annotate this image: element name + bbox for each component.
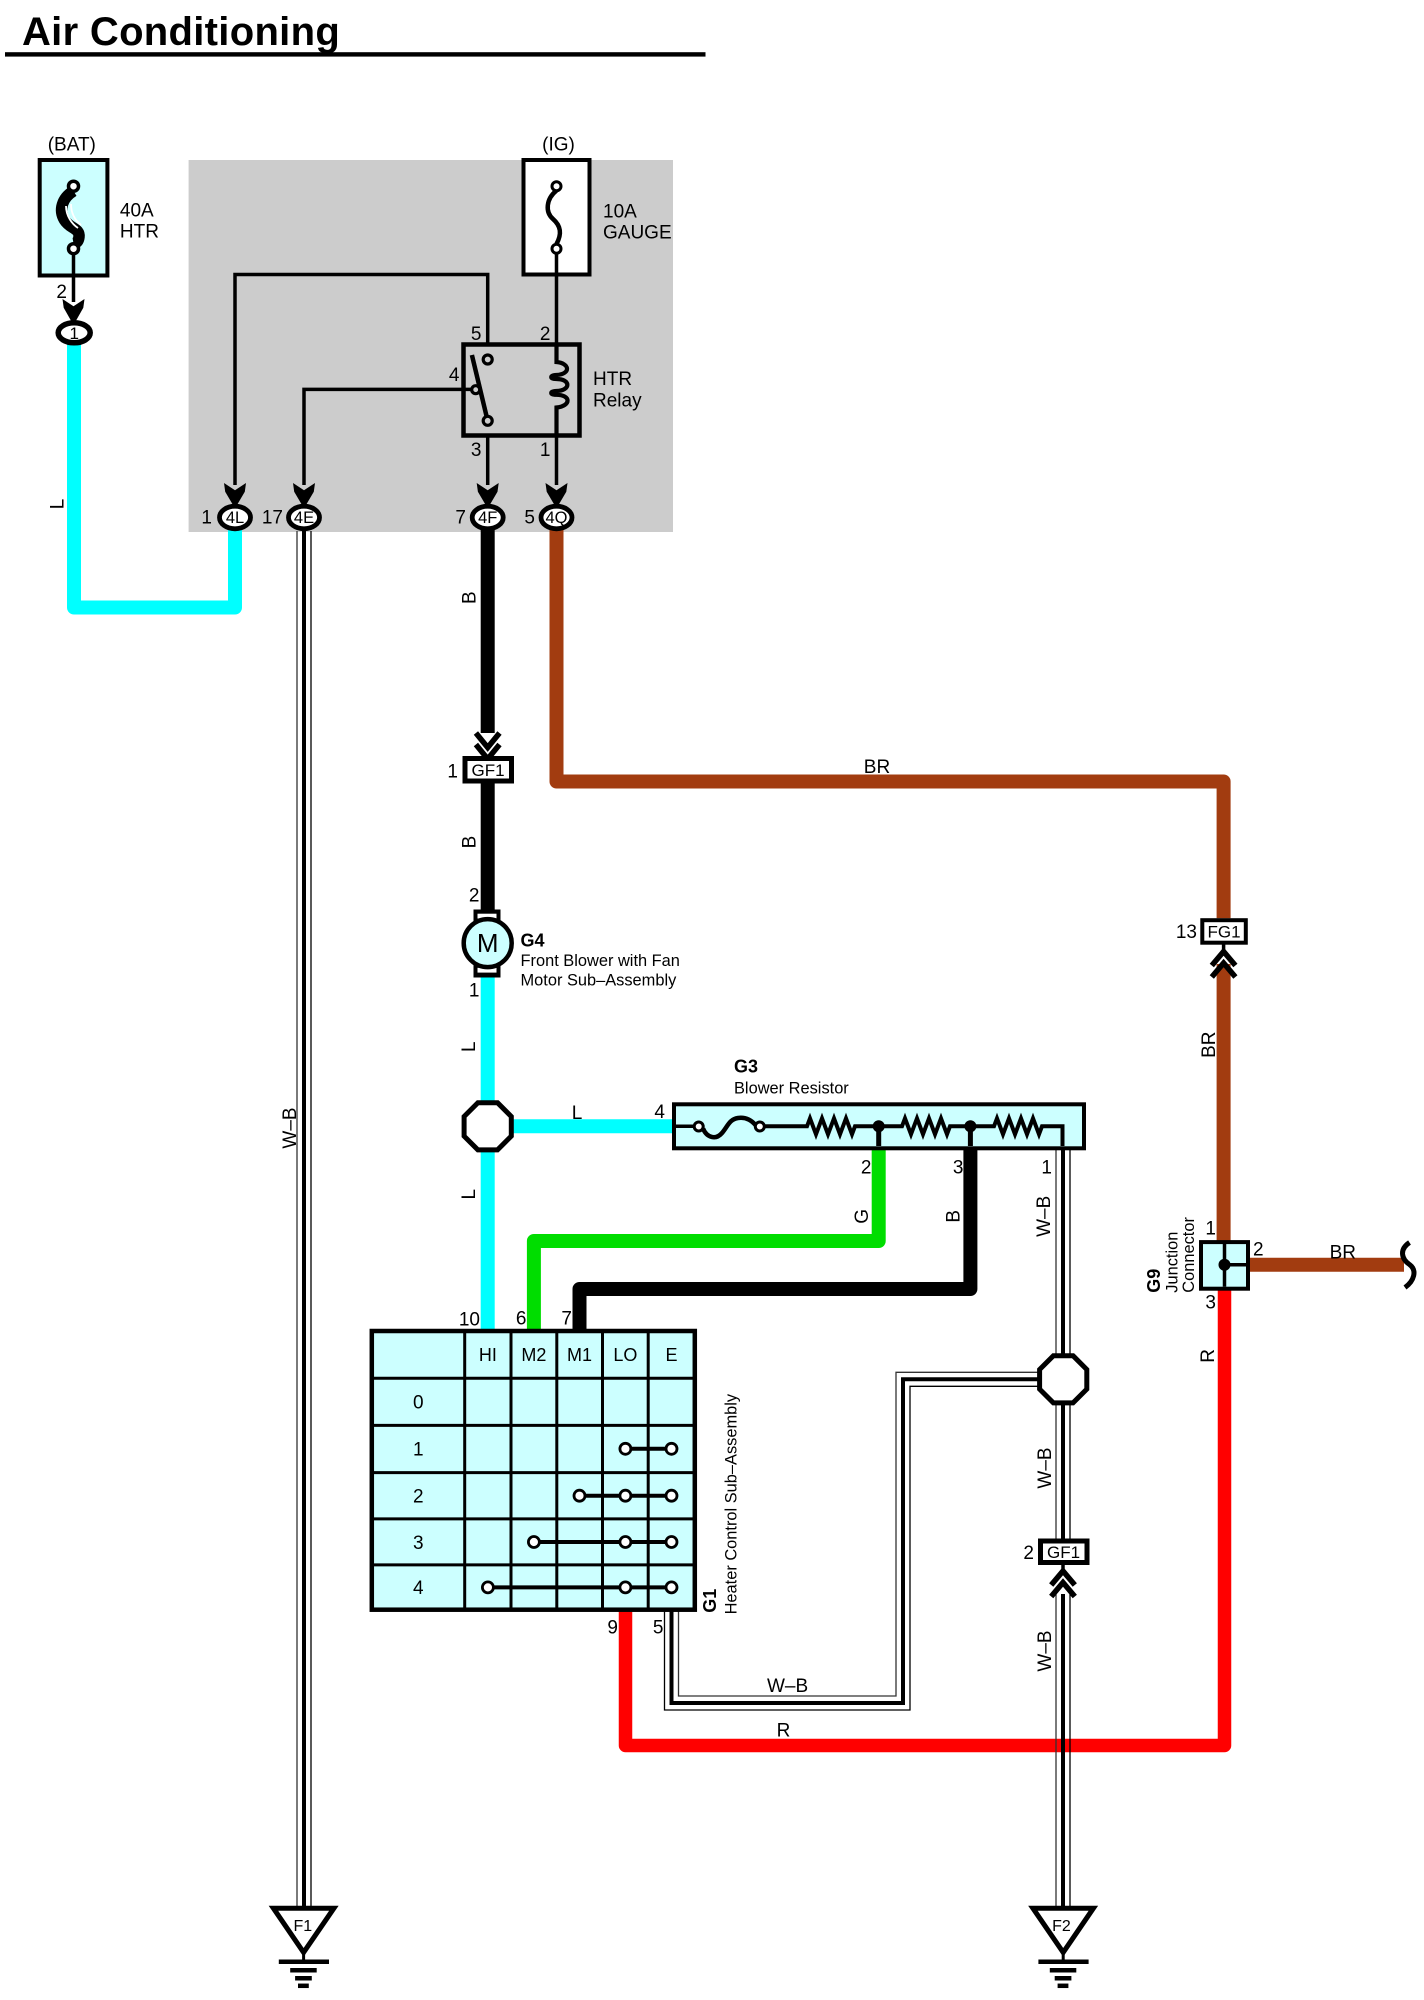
svg-text:10A: 10A (603, 202, 637, 223)
svg-text:2: 2 (1253, 1240, 1264, 1261)
svg-text:10: 10 (459, 1310, 480, 1331)
svg-text:5: 5 (524, 508, 535, 529)
svg-text:R: R (1198, 1349, 1219, 1363)
svg-text:5: 5 (653, 1618, 664, 1639)
blower motor G4 with fan (464, 910, 680, 990)
svg-text:W–B: W–B (767, 1676, 808, 1697)
double chevron arrow up below GF1 2 (1061, 1563, 1065, 1573)
svg-text:1: 1 (69, 324, 78, 343)
svg-text:M1: M1 (567, 1345, 592, 1365)
connector oval 4E with pin 17 (262, 506, 320, 529)
svg-text:1: 1 (540, 440, 551, 461)
wire W-B (triple line) blower resistor pin 1 to junction B (1056, 1149, 1070, 1356)
connector GF1 pin 2 (1023, 1541, 1087, 1564)
wire W-B (triple line) junction B to GF1 connector 2 (1056, 1403, 1070, 1540)
svg-text:HI: HI (479, 1345, 497, 1365)
heater control sub-assembly G1 switch table (372, 1331, 695, 1610)
blower resistor G3 (654, 1057, 1084, 1179)
switch contact row 2 (574, 1490, 677, 1501)
svg-text:M2: M2 (521, 1345, 546, 1365)
svg-text:1: 1 (447, 762, 458, 783)
arrow into connector 1 (63, 299, 85, 321)
svg-text:2: 2 (861, 1158, 872, 1179)
wire L (cyan) junction to blower resistor pin 4 (500, 1119, 672, 1133)
wire W-B (triple line) heater control pin 5 to junction B (665, 1372, 1041, 1710)
svg-text:(IG): (IG) (542, 135, 575, 156)
arrow into 4L (224, 483, 246, 504)
svg-text:4F: 4F (478, 509, 497, 527)
arrow into 4Q (546, 483, 568, 504)
switch contact row 1 (620, 1443, 677, 1454)
relay HTR (449, 324, 642, 461)
connector FG1 pin 13 (1176, 920, 1246, 943)
wire BR (brown) 4Q to FG1 (557, 528, 1224, 918)
svg-text:4E: 4E (294, 509, 314, 527)
svg-text:W–B: W–B (280, 1107, 301, 1148)
ground F1 (273, 1908, 334, 1986)
svg-text:B: B (460, 591, 481, 604)
connector oval 4Q with pin 5 (524, 506, 572, 529)
wire IG fuse to relay pin 2 (555, 253, 559, 343)
svg-text:HTR: HTR (593, 369, 632, 390)
svg-text:G: G (852, 1209, 873, 1224)
svg-text:L: L (48, 499, 69, 510)
connector oval 4L with pin 1 (201, 506, 250, 529)
svg-text:W–B: W–B (1035, 1630, 1056, 1671)
wire W-B (triple line) 4E to ground F1 (297, 531, 311, 1906)
wire G (green) blower resistor pin 2 to heater control pin 6 (534, 1149, 879, 1333)
svg-text:W–B: W–B (1035, 1447, 1056, 1488)
arrow into 4E (293, 483, 315, 504)
svg-text:L: L (459, 1041, 480, 1052)
ground F2 (1033, 1908, 1094, 1986)
svg-text:2: 2 (56, 282, 67, 303)
svg-text:7: 7 (561, 1309, 572, 1330)
svg-text:Air Conditioning: Air Conditioning (22, 10, 340, 54)
svg-text:G1: G1 (700, 1589, 720, 1613)
svg-text:W–B: W–B (1034, 1196, 1055, 1237)
wire BR (brown) FG1 to G9 pin 1 (1217, 964, 1231, 1241)
double chevron arrow into GF1 connector 1 (476, 733, 500, 759)
wire B (black) GF1 to blower motor pin 2 (481, 783, 495, 910)
svg-text:GF1: GF1 (1047, 1543, 1080, 1562)
connector oval 1 (58, 323, 90, 343)
wire R (red) heater control pin 9 to G9 pin 3 (626, 1289, 1225, 1746)
wire L (cyan) motor pin 1 through junction to heater control pin 10 (481, 976, 495, 1333)
svg-text:(BAT): (BAT) (48, 135, 96, 156)
wire relay pin 5 to connector 4L (235, 275, 488, 486)
svg-text:4: 4 (449, 365, 460, 386)
svg-text:3: 3 (1205, 1293, 1216, 1314)
svg-text:LO: LO (613, 1345, 637, 1365)
wire relay pin 3 to connector 4F (486, 437, 490, 485)
svg-text:E: E (665, 1345, 677, 1365)
heater control pin labels 10 6 7 (459, 1309, 572, 1331)
wire B (black) 4F to GF1 (481, 528, 495, 733)
double chevron arrow up below FG1 (1222, 943, 1226, 953)
svg-text:4L: 4L (226, 509, 244, 527)
svg-text:1: 1 (1041, 1158, 1052, 1179)
svg-text:9: 9 (607, 1618, 618, 1639)
svg-text:Relay: Relay (593, 391, 642, 412)
svg-text:Motor Sub–Assembly: Motor Sub–Assembly (521, 972, 678, 990)
svg-text:2: 2 (469, 886, 480, 907)
junction connector G9 (1144, 1217, 1264, 1314)
svg-text:4: 4 (654, 1102, 665, 1123)
svg-text:2: 2 (540, 324, 551, 345)
junction A (octagon) (464, 1103, 511, 1150)
wire fuse 40A to connector 1 (72, 253, 76, 302)
svg-text:G4: G4 (521, 931, 545, 951)
svg-text:1: 1 (469, 981, 480, 1002)
svg-text:F1: F1 (293, 1918, 312, 1935)
svg-text:BR: BR (1199, 1031, 1220, 1057)
svg-text:1: 1 (413, 1440, 424, 1461)
svg-text:17: 17 (262, 508, 283, 529)
svg-text:B: B (944, 1210, 965, 1223)
svg-text:Connector: Connector (1180, 1217, 1198, 1293)
wire relay pin 4 to connector 4E (304, 389, 471, 485)
svg-text:BR: BR (1330, 1243, 1356, 1264)
relay block background (gray box) (189, 160, 673, 532)
svg-text:M: M (477, 928, 499, 958)
svg-text:F2: F2 (1052, 1918, 1071, 1935)
svg-text:5: 5 (471, 324, 482, 345)
svg-text:B: B (460, 836, 481, 849)
wire W-B (triple line) GF1 connector 2 to ground F2 (1056, 1594, 1070, 1906)
svg-text:3: 3 (953, 1158, 964, 1179)
svg-text:Heater Control Sub–Assembly: Heater Control Sub–Assembly (723, 1393, 741, 1614)
fuse 10A GAUGE (IG) (524, 135, 672, 275)
svg-text:13: 13 (1176, 922, 1197, 943)
junction B (octagon) (1040, 1356, 1087, 1403)
connector oval 4F with pin 7 (455, 506, 503, 529)
svg-text:GAUGE: GAUGE (603, 223, 672, 244)
switch contact row 4 (482, 1582, 677, 1593)
svg-text:3: 3 (471, 440, 482, 461)
heater control pin labels 9 5 (607, 1618, 663, 1639)
wire B (black) blower resistor pin 3 to heater control pin 7 (580, 1149, 971, 1333)
svg-text:1: 1 (201, 508, 212, 529)
svg-text:40A: 40A (120, 201, 154, 222)
wire relay pin 1 to connector 4Q (555, 437, 559, 485)
svg-text:R: R (777, 1721, 791, 1742)
svg-text:2: 2 (1023, 1543, 1034, 1564)
switch contact row 3 (528, 1537, 677, 1548)
svg-text:0: 0 (413, 1393, 424, 1414)
svg-text:7: 7 (455, 508, 466, 529)
svg-text:G9: G9 (1144, 1269, 1164, 1293)
svg-text:L: L (572, 1103, 583, 1124)
svg-text:L: L (459, 1189, 480, 1200)
svg-text:Blower Resistor: Blower Resistor (734, 1080, 849, 1098)
svg-text:1: 1 (1205, 1219, 1216, 1240)
title Air Conditioning (5, 10, 706, 57)
svg-text:6: 6 (516, 1309, 527, 1330)
svg-text:4: 4 (413, 1578, 424, 1599)
svg-text:FG1: FG1 (1207, 923, 1240, 942)
connector GF1 pin 1 (447, 759, 511, 783)
svg-text:2: 2 (413, 1487, 424, 1508)
svg-text:HTR: HTR (120, 222, 159, 243)
svg-text:Junction: Junction (1164, 1232, 1182, 1293)
arrow into 4F (477, 483, 499, 504)
wire L (cyan) from fuse connector 1 to 4L (74, 341, 235, 608)
wire BR (brown) G9 pin 2 to right continuation (1248, 1258, 1404, 1272)
svg-text:GF1: GF1 (471, 761, 504, 780)
fuse 40A HTR (BAT) (40, 135, 159, 276)
svg-text:4Q: 4Q (545, 509, 567, 527)
svg-text:BR: BR (864, 757, 890, 778)
svg-text:3: 3 (413, 1533, 424, 1554)
svg-text:Front Blower with Fan: Front Blower with Fan (521, 952, 680, 970)
svg-text:G3: G3 (734, 1057, 758, 1077)
continuation squiggle on BR wire (1403, 1243, 1414, 1288)
